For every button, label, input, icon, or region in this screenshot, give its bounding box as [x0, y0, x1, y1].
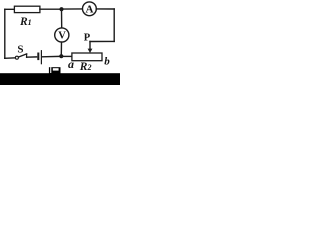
wire right vertical — [113, 9, 115, 41]
svg-text:R2: R2 — [79, 61, 92, 73]
svg-text:V: V — [58, 31, 66, 42]
wire bottom-left to switch pivot — [5, 57, 16, 60]
black band bottom — [0, 73, 120, 85]
wire node to ammeter — [62, 8, 83, 10]
battery negative plate short thick — [37, 53, 39, 61]
wire voltmeter to bottom node — [60, 42, 62, 55]
wire left vertical — [4, 9, 6, 58]
resistor R1 — [14, 6, 40, 12]
battery positive plate long thin — [41, 50, 42, 64]
svg-text:a: a — [68, 57, 74, 71]
switch fixed contact tick — [26, 55, 28, 58]
svg-text:S: S — [17, 43, 23, 55]
rheostat R2 box — [72, 53, 102, 61]
svg-text:b: b — [104, 55, 110, 67]
voltmeter V circle — [55, 28, 69, 42]
wire ammeter to top-right corner — [96, 8, 114, 10]
wire right corner to wiper — [90, 40, 114, 42]
svg-text:A: A — [86, 3, 94, 15]
node bottom junction — [59, 54, 63, 58]
wire top-left horizontal — [5, 8, 15, 10]
wire battery to bottom node — [42, 55, 59, 57]
wire R1 to top node — [40, 8, 59, 10]
switch S pivot — [15, 56, 18, 59]
ammeter A circle — [83, 2, 97, 16]
wire top node to voltmeter — [61, 10, 63, 28]
wiper stem — [89, 42, 91, 49]
wire switch to battery — [27, 56, 37, 58]
svg-text:R1: R1 — [19, 16, 32, 28]
svg-text:P: P — [84, 33, 91, 44]
wiper arrowhead — [88, 49, 93, 53]
node top junction — [59, 7, 63, 11]
wire node to rheostat terminal a — [61, 55, 72, 57]
partial glyph above band — [49, 67, 61, 73]
switch blade — [18, 54, 26, 57]
